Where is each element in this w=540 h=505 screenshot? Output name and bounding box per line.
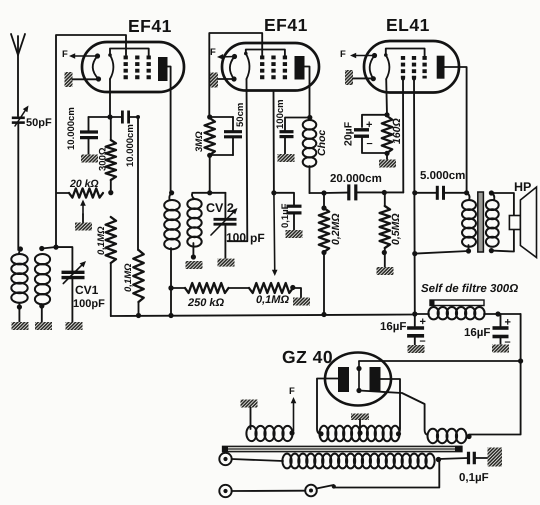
svg-text:100cm: 100cm [275, 99, 286, 129]
V2 filament label F and arrow [210, 47, 235, 60]
resistor 160Ω (cathode bias) [382, 116, 392, 160]
svg-text:0,1MΩ: 0,1MΩ [256, 294, 289, 306]
V1 anode plate [158, 57, 171, 193]
ground (V3 cathode) [345, 70, 373, 85]
ground (0,1µF detector) [286, 230, 303, 238]
svg-text:–: – [505, 336, 511, 348]
capacitor 0,1µF (detector) [274, 193, 302, 230]
label 0,1µF (detector) [280, 203, 291, 228]
ground (IF secondary) [186, 261, 203, 269]
resistor 0,1MΩ (V1 screen) [133, 250, 143, 318]
svg-text:CV1: CV1 [75, 283, 99, 297]
capacitor 10.000cm (coupling) [110, 111, 140, 124]
label - (16µF right) [505, 336, 511, 348]
svg-text:0,1MΩ: 0,1MΩ [123, 263, 134, 292]
V4 anode right [370, 367, 401, 434]
V3 grid bars [403, 56, 425, 79]
V2 grid wire (to CV2 bottom) [228, 79, 248, 241]
chassis (mains cap) [488, 448, 503, 467]
antenna [11, 34, 25, 116]
svg-text:Choc: Choc [316, 130, 328, 156]
label - (16µF left) [420, 335, 426, 347]
tube V4 GZ40 envelope [325, 353, 391, 406]
ground (HV center tap) [351, 414, 369, 434]
label + (16µF left) [420, 316, 426, 328]
ground (L2) [35, 322, 52, 330]
label 250kΩ [187, 297, 225, 309]
label 16µF (right) [464, 327, 490, 339]
resistor 250kΩ [168, 283, 249, 293]
svg-text:HP: HP [514, 180, 531, 194]
V1 grid arc [108, 53, 113, 79]
transformer T1 primary winding [246, 426, 292, 441]
coil IF secondary [187, 193, 201, 260]
label CV2 [206, 201, 234, 215]
svg-text:0,1MΩ: 0,1MΩ [96, 226, 107, 255]
wire (HT+ right rail) [466, 314, 523, 439]
wire (V1 anode to IF primary) [169, 190, 174, 195]
capacitor 10.000cm (V1 grid, to ground) [80, 117, 110, 155]
ground (100cm) [278, 154, 295, 162]
svg-text:100: 100 [226, 231, 246, 245]
ground (V2 cathode) [210, 73, 234, 88]
capacitor 100cm [280, 118, 310, 155]
svg-text:10.000cm: 10.000cm [66, 107, 77, 150]
label 10.000cm (second) [125, 124, 136, 167]
V2 cathode arc [230, 54, 237, 82]
svg-text:100pF: 100pF [73, 298, 105, 310]
ground (16µF left) [408, 345, 425, 353]
potentiometer 20kΩ [57, 188, 113, 222]
label CV1 [75, 283, 99, 297]
V1 top grid bracket [110, 49, 149, 56]
svg-text:20µF: 20µF [343, 121, 355, 146]
wire (tube1 grid frame to L2/CV1) [42, 35, 126, 271]
ground (160Ω) [379, 160, 396, 168]
label GZ40 [282, 347, 333, 367]
label HP [514, 180, 531, 194]
svg-text:300Ω: 300Ω [98, 147, 109, 171]
label 0,1MΩ (volume) [256, 294, 289, 306]
wire (tank top) [192, 192, 225, 194]
svg-text:20.000cm: 20.000cm [330, 173, 382, 185]
svg-text:16µF: 16µF [380, 321, 406, 333]
resistor 0,1MΩ (V1 chain upper) [106, 217, 116, 316]
label 160Ω [391, 118, 403, 144]
wire (V1 grid chain) [107, 79, 112, 120]
switch (mains) [305, 457, 441, 496]
svg-text:+: + [420, 316, 426, 328]
label 50pF [26, 117, 52, 129]
svg-text:0,1µF: 0,1µF [280, 203, 291, 228]
label 0,1µF (mains) [459, 472, 489, 484]
label - (20µF) [367, 138, 373, 150]
wire (V1 screen line) [137, 117, 139, 250]
coil IF primary [164, 193, 180, 318]
V2 anode plate [295, 56, 310, 118]
transformer T1 LT secondary [282, 454, 441, 469]
svg-text:Self de filtre 300Ω: Self de filtre 300Ω [421, 283, 518, 295]
svg-text:0,5MΩ: 0,5MΩ [390, 213, 402, 245]
capacitor 16µF (left) [407, 314, 424, 345]
wire (V4 filament to HT+) [359, 360, 521, 362]
capacitor 20.000cm [349, 184, 356, 200]
tube V3 EL41 envelope [364, 41, 459, 93]
wire (V3 cathode bias line) [384, 79, 389, 117]
svg-text:20 kΩ: 20 kΩ [69, 178, 99, 190]
V4 filament [356, 362, 361, 394]
ground (16µF right) [492, 345, 509, 353]
terminal (mains top) [219, 453, 283, 465]
V4 anode left [317, 367, 349, 434]
V2 grid bars [262, 56, 285, 82]
ground (CV1) [66, 322, 83, 330]
svg-text:+: + [505, 317, 511, 329]
label 20µF [343, 121, 355, 146]
label Self de filtre 300Ω [421, 283, 518, 295]
speaker HP [509, 187, 536, 258]
transformer T1 5V winding [428, 429, 467, 443]
ground (L1) [12, 322, 29, 330]
label 100cm [275, 99, 286, 129]
capacitor 20µF (cathode bypass) [354, 115, 387, 153]
label EF41 (V1) [128, 16, 172, 36]
ground (10.000cm) [81, 155, 98, 163]
ground (0,5MΩ) [377, 267, 394, 275]
svg-text:EF41: EF41 [264, 15, 308, 35]
svg-text:EF41: EF41 [128, 16, 172, 36]
label 16µF (left) [380, 321, 406, 333]
svg-text:160Ω: 160Ω [391, 118, 403, 144]
label Choc [316, 130, 328, 156]
transformer T1 core [223, 446, 463, 452]
ground (20kΩ wiper) [75, 223, 92, 231]
variable capacitor CV2 [211, 193, 238, 259]
capacitor 50pF (antenna trimmer) [12, 106, 29, 251]
V1 filament label F and arrow [62, 49, 98, 60]
label 0,1MΩ (screen) [123, 263, 134, 292]
svg-text:3MΩ: 3MΩ [194, 131, 205, 152]
svg-text:pF: pF [250, 231, 265, 245]
svg-text:GZ 40: GZ 40 [282, 347, 333, 367]
V1 grid bars [126, 56, 149, 82]
label 50cm [235, 103, 246, 127]
svg-text:+: + [366, 119, 372, 131]
wire (B+ bus) [111, 315, 415, 317]
capacitor 0,1µF (mains) [439, 452, 488, 465]
wire (V4 filament to 5V winding) [359, 391, 428, 436]
capacitor 5.000cm [415, 186, 469, 200]
transformer T2 core [478, 192, 484, 252]
svg-text:5.000cm: 5.000cm [420, 170, 465, 182]
wire (V3 g1 to AF bus) [401, 77, 405, 193]
label 5.000cm [420, 170, 465, 182]
V1 cathode arc [93, 53, 101, 81]
resistor 0,2MΩ [319, 193, 329, 317]
label 20.000cm [330, 173, 382, 185]
V2 frame wire (to 3MΩ) [207, 33, 262, 120]
wire (AF bus right) [356, 190, 404, 195]
coil L1 (antenna primary) [11, 246, 27, 322]
transformer T2 secondary [486, 190, 514, 253]
svg-text:50cm: 50cm [235, 103, 246, 127]
coil L2 (antenna secondary) [35, 246, 50, 322]
inductor filter choke [415, 307, 521, 319]
svg-text:–: – [420, 335, 426, 347]
svg-text:0,1µF: 0,1µF [459, 472, 489, 484]
capacitor 16µF (right) [493, 314, 509, 345]
resistor 0,5MΩ [380, 193, 390, 268]
resistor 3MΩ [205, 118, 215, 158]
V3 top grid bracket [386, 49, 425, 57]
ground (primary left) [241, 400, 258, 430]
label + (16µF right) [505, 317, 511, 329]
label 0,1MΩ (chain upper) [96, 226, 107, 255]
label 100pF (CV1) [73, 298, 105, 310]
V3 filament label F and arrow [340, 49, 375, 60]
label EL41 (V3) [386, 15, 430, 35]
label 0,2MΩ [330, 213, 342, 245]
wire (V3 screen to B+) [412, 77, 417, 317]
label F (mains) and arrow [289, 386, 296, 436]
svg-text:10.000cm: 10.000cm [125, 124, 136, 167]
label 0,5MΩ [390, 213, 402, 245]
svg-text:0,2MΩ: 0,2MΩ [330, 213, 342, 245]
svg-text:16µF: 16µF [464, 327, 490, 339]
potentiometer 0,1MΩ (volume) [249, 283, 301, 298]
resistor 300Ω [106, 117, 116, 193]
svg-text:250 kΩ: 250 kΩ [187, 297, 225, 309]
svg-text:F: F [289, 386, 295, 397]
inductor Choc [303, 115, 324, 193]
label 3MΩ [194, 131, 205, 152]
svg-text:EL41: EL41 [386, 15, 430, 35]
svg-text:F: F [210, 47, 216, 58]
V2 top grid bracket [246, 50, 285, 56]
label + (20µF) [366, 119, 372, 131]
wire (3MΩ to tank) [207, 155, 212, 195]
tube V2 EF41 envelope [222, 43, 319, 91]
svg-text:CV 2: CV 2 [206, 201, 234, 215]
transformer T1 HV winding [318, 426, 401, 442]
capacitor 50cm [210, 117, 242, 155]
tube V1 EF41 envelope [82, 42, 184, 92]
label 10.000cm (first) [66, 107, 77, 150]
V3 cathode arc [370, 53, 377, 81]
svg-text:–: – [367, 138, 373, 150]
variable capacitor CV1 100pF [62, 261, 87, 322]
ground (CV2) [218, 259, 235, 267]
V2 grid arc [244, 52, 249, 79]
V3 grid arc [384, 53, 389, 79]
label 100pF (CV2) [226, 231, 265, 246]
ground (V1 cathode) [65, 72, 99, 87]
wire (V2 input line) [271, 92, 277, 276]
svg-text:F: F [340, 49, 346, 60]
ground (volume pot) [293, 298, 310, 306]
svg-text:F: F [62, 49, 68, 60]
transformer T2 primary [415, 193, 476, 254]
label EF41 (V2) [264, 15, 308, 35]
V3 anode plate [437, 56, 467, 193]
terminal (mains bottom) [219, 485, 305, 497]
svg-text:50pF: 50pF [26, 117, 52, 129]
label 300Ω [98, 147, 109, 171]
label 20kΩ [69, 178, 99, 190]
inductor filter choke core [430, 300, 484, 306]
wire (AF bus left) [321, 190, 348, 195]
